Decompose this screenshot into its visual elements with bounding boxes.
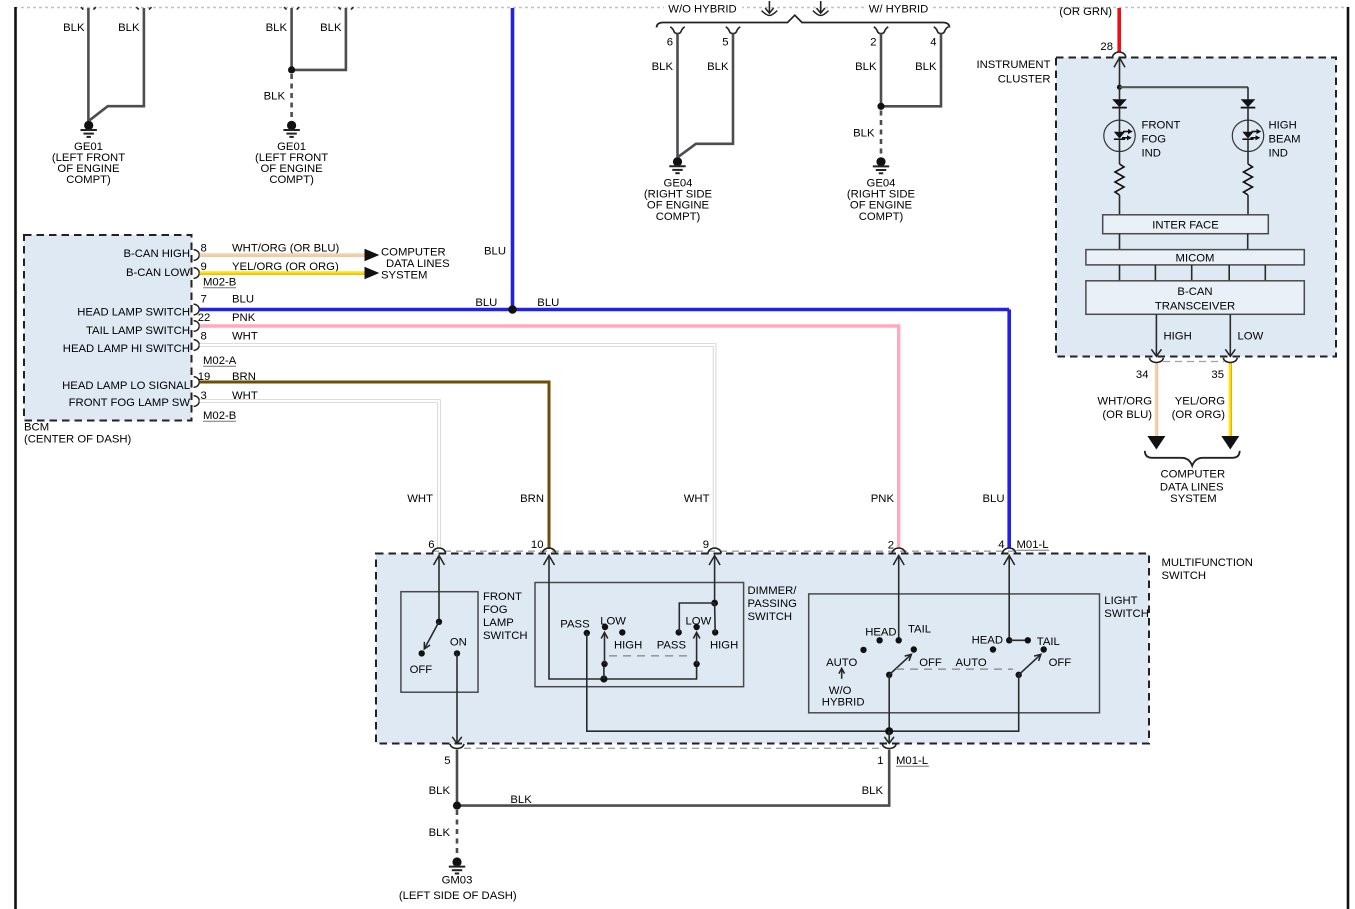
svg-text:6: 6 bbox=[428, 539, 434, 551]
svg-text:HEAD: HEAD bbox=[865, 626, 896, 638]
svg-text:BLK: BLK bbox=[707, 61, 729, 73]
svg-text:HIGH: HIGH bbox=[1269, 119, 1297, 131]
svg-text:YEL/ORG (OR ORG): YEL/ORG (OR ORG) bbox=[232, 261, 339, 273]
svg-text:COMPT): COMPT) bbox=[269, 174, 314, 186]
svg-text:HEAD LAMP LO SIGNAL: HEAD LAMP LO SIGNAL bbox=[62, 380, 190, 392]
svg-text:TAIL LAMP SWITCH: TAIL LAMP SWITCH bbox=[86, 325, 190, 337]
svg-text:BLK: BLK bbox=[429, 827, 451, 839]
svg-text:OFF: OFF bbox=[1049, 657, 1072, 669]
svg-text:TAIL: TAIL bbox=[908, 624, 931, 636]
svg-text:OF ENGINE: OF ENGINE bbox=[647, 200, 710, 212]
svg-text:HEAD: HEAD bbox=[972, 634, 1003, 646]
svg-text:YEL/ORG: YEL/ORG bbox=[1175, 395, 1225, 407]
svg-text:GE04: GE04 bbox=[664, 177, 693, 189]
svg-text:7: 7 bbox=[201, 293, 207, 305]
svg-text:BLK: BLK bbox=[862, 785, 884, 797]
svg-text:(RIGHT SIDE: (RIGHT SIDE bbox=[847, 189, 916, 201]
svg-text:BLK: BLK bbox=[266, 22, 288, 34]
svg-text:LAMP: LAMP bbox=[483, 617, 514, 629]
svg-text:FRONT FOG LAMP SW: FRONT FOG LAMP SW bbox=[69, 397, 191, 409]
svg-text:(OR ORG): (OR ORG) bbox=[1172, 409, 1226, 421]
svg-text:9: 9 bbox=[703, 539, 709, 551]
svg-text:SWITCH: SWITCH bbox=[483, 630, 528, 642]
svg-text:BLK: BLK bbox=[652, 61, 674, 73]
svg-text:B-CAN HIGH: B-CAN HIGH bbox=[123, 248, 190, 260]
svg-text:10: 10 bbox=[531, 539, 544, 551]
svg-text:WHT: WHT bbox=[684, 493, 710, 505]
svg-text:BLK: BLK bbox=[510, 794, 532, 806]
svg-text:4: 4 bbox=[998, 539, 1004, 551]
svg-text:BLU: BLU bbox=[983, 493, 1005, 505]
svg-text:PASSING: PASSING bbox=[748, 598, 797, 610]
svg-text:M02-B: M02-B bbox=[203, 410, 236, 422]
svg-text:BCM: BCM bbox=[24, 422, 49, 434]
svg-text:SYSTEM: SYSTEM bbox=[1170, 493, 1216, 505]
svg-text:HIGH: HIGH bbox=[614, 640, 642, 652]
svg-text:HEAD LAMP SWITCH: HEAD LAMP SWITCH bbox=[77, 307, 190, 319]
svg-text:BLU: BLU bbox=[537, 297, 559, 309]
svg-text:BLK: BLK bbox=[118, 22, 140, 34]
svg-text:INSTRUMENT: INSTRUMENT bbox=[976, 59, 1050, 71]
svg-text:BLU: BLU bbox=[475, 297, 497, 309]
svg-text:OFF: OFF bbox=[919, 657, 942, 669]
svg-text:34: 34 bbox=[1136, 369, 1149, 381]
svg-text:ON: ON bbox=[450, 636, 467, 648]
svg-text:6: 6 bbox=[667, 36, 673, 48]
svg-text:SWITCH: SWITCH bbox=[1104, 608, 1149, 620]
svg-text:HIGH: HIGH bbox=[710, 640, 738, 652]
svg-text:BLK: BLK bbox=[429, 785, 451, 797]
svg-text:W/ HYBRID: W/ HYBRID bbox=[869, 3, 929, 15]
svg-text:LOW: LOW bbox=[1238, 330, 1264, 342]
svg-text:5: 5 bbox=[722, 36, 728, 48]
svg-text:B-CAN LOW: B-CAN LOW bbox=[126, 267, 190, 279]
svg-text:2: 2 bbox=[870, 36, 876, 48]
svg-text:4: 4 bbox=[930, 36, 936, 48]
svg-text:HIGH: HIGH bbox=[1164, 330, 1192, 342]
svg-text:SYSTEM: SYSTEM bbox=[381, 269, 427, 281]
svg-text:BLU: BLU bbox=[484, 245, 506, 257]
svg-text:8: 8 bbox=[201, 242, 207, 254]
svg-text:W/O: W/O bbox=[829, 685, 852, 697]
svg-text:MULTIFUNCTION: MULTIFUNCTION bbox=[1162, 557, 1253, 569]
svg-text:GM03: GM03 bbox=[442, 874, 473, 886]
svg-text:WHT: WHT bbox=[407, 493, 433, 505]
svg-text:BRN: BRN bbox=[520, 493, 544, 505]
svg-text:DIMMER/: DIMMER/ bbox=[748, 585, 798, 597]
svg-text:BLK: BLK bbox=[320, 22, 342, 34]
svg-text:DATA LINES: DATA LINES bbox=[1160, 481, 1224, 493]
svg-text:B-CAN: B-CAN bbox=[1177, 286, 1212, 298]
svg-text:28: 28 bbox=[1100, 41, 1113, 53]
svg-text:2: 2 bbox=[888, 540, 894, 552]
svg-text:BEAM: BEAM bbox=[1269, 133, 1301, 145]
svg-text:FOG: FOG bbox=[1142, 133, 1166, 145]
svg-text:LOW: LOW bbox=[600, 616, 626, 628]
svg-text:BLK: BLK bbox=[915, 61, 937, 73]
svg-text:CLUSTER: CLUSTER bbox=[998, 74, 1051, 86]
svg-text:AUTO: AUTO bbox=[956, 657, 987, 669]
svg-text:W/O HYBRID: W/O HYBRID bbox=[668, 3, 736, 15]
svg-text:GE04: GE04 bbox=[867, 177, 896, 189]
svg-text:PASS: PASS bbox=[657, 640, 687, 652]
svg-text:HEAD LAMP HI SWITCH: HEAD LAMP HI SWITCH bbox=[63, 343, 190, 355]
svg-text:BLK: BLK bbox=[63, 22, 85, 34]
svg-text:WHT/ORG: WHT/ORG bbox=[1097, 395, 1152, 407]
svg-text:FRONT: FRONT bbox=[483, 591, 522, 603]
svg-text:9: 9 bbox=[201, 261, 207, 273]
svg-text:SWITCH: SWITCH bbox=[1162, 570, 1207, 582]
svg-text:FRONT: FRONT bbox=[1142, 119, 1181, 131]
svg-text:MICOM: MICOM bbox=[1176, 252, 1215, 264]
svg-text:COMPUTER: COMPUTER bbox=[1160, 468, 1225, 480]
svg-text:22: 22 bbox=[198, 312, 211, 324]
svg-text:TAIL: TAIL bbox=[1037, 636, 1060, 648]
svg-text:IND: IND bbox=[1269, 147, 1288, 159]
svg-text:(CENTER OF DASH): (CENTER OF DASH) bbox=[24, 434, 132, 446]
svg-text:COMPT): COMPT) bbox=[859, 211, 904, 223]
svg-text:OFF: OFF bbox=[410, 664, 433, 676]
svg-text:LOW: LOW bbox=[686, 616, 712, 628]
svg-text:IND: IND bbox=[1142, 147, 1161, 159]
svg-text:BLK: BLK bbox=[264, 91, 286, 103]
svg-text:COMPT): COMPT) bbox=[66, 174, 111, 186]
svg-text:BLK: BLK bbox=[855, 61, 877, 73]
svg-text:PNK: PNK bbox=[871, 493, 895, 505]
svg-text:(OR BLU): (OR BLU) bbox=[1102, 409, 1152, 421]
svg-text:WHT/ORG (OR BLU): WHT/ORG (OR BLU) bbox=[232, 242, 340, 254]
svg-text:BLU: BLU bbox=[232, 293, 254, 305]
svg-text:M02-B: M02-B bbox=[203, 277, 236, 289]
svg-text:DATA LINES: DATA LINES bbox=[386, 258, 450, 270]
svg-text:WHT: WHT bbox=[232, 330, 258, 342]
svg-text:1: 1 bbox=[877, 755, 883, 767]
svg-text:OF ENGINE: OF ENGINE bbox=[850, 200, 913, 212]
svg-text:PNK: PNK bbox=[232, 312, 256, 324]
svg-text:(LEFT SIDE OF DASH): (LEFT SIDE OF DASH) bbox=[399, 890, 517, 902]
svg-text:(RIGHT SIDE: (RIGHT SIDE bbox=[644, 189, 713, 201]
svg-text:TRANSCEIVER: TRANSCEIVER bbox=[1155, 300, 1235, 312]
svg-text:LIGHT: LIGHT bbox=[1104, 595, 1137, 607]
svg-text:PASS: PASS bbox=[560, 618, 590, 630]
svg-text:HYBRID: HYBRID bbox=[822, 696, 865, 708]
svg-text:COMPUTER: COMPUTER bbox=[381, 246, 446, 258]
svg-text:5: 5 bbox=[444, 755, 450, 767]
svg-text:FOG: FOG bbox=[483, 604, 507, 616]
svg-text:COMPT): COMPT) bbox=[656, 211, 701, 223]
svg-text:8: 8 bbox=[201, 330, 207, 342]
svg-text:M02-A: M02-A bbox=[203, 355, 237, 367]
svg-text:M01-L: M01-L bbox=[1017, 539, 1049, 551]
svg-text:35: 35 bbox=[1211, 369, 1224, 381]
svg-text:BLK: BLK bbox=[853, 127, 875, 139]
svg-text:M01-L: M01-L bbox=[896, 755, 928, 767]
svg-text:SWITCH: SWITCH bbox=[748, 611, 793, 623]
svg-text:INTER FACE: INTER FACE bbox=[1152, 220, 1219, 232]
svg-text:(OR GRN): (OR GRN) bbox=[1059, 6, 1112, 18]
